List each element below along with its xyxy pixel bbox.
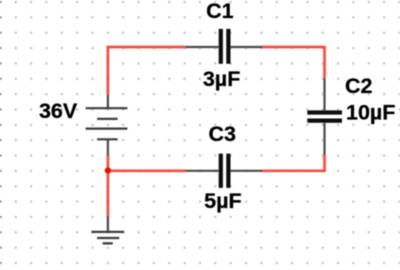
wire bottom-right: C2 bottom to C3 right [263, 155, 325, 171]
battery V1 top stub [107, 95, 109, 109]
svg-text:5µF: 5µF [204, 189, 241, 213]
svg-text:10µF: 10µF [346, 101, 395, 125]
wire top-left: node from battery + to C1 left [108, 47, 186, 95]
battery V1 plates [86, 108, 128, 139]
capacitor C3 leads [186, 170, 263, 172]
battery V1 bottom stub [107, 139, 109, 156]
svg-text:C3: C3 [208, 122, 236, 146]
junction node [105, 167, 111, 173]
capacitor C3 plates [221, 154, 229, 188]
svg-text:3µF: 3µF [203, 67, 240, 91]
capacitor C2 plates [307, 113, 342, 121]
ground [92, 232, 125, 244]
svg-text:C2: C2 [345, 74, 373, 98]
ground stub [107, 217, 109, 233]
capacitor C1 plates [221, 29, 229, 64]
wire battery - to junction to ground [107, 155, 110, 217]
svg-text:C1: C1 [206, 0, 234, 23]
svg-text:36V: 36V [39, 99, 78, 123]
capacitor C1 leads [186, 46, 263, 48]
wire top-right: C1 right to C2 top [263, 47, 325, 78]
wire bottom-left: C3 left to junction [108, 169, 186, 172]
capacitor C2 leads [323, 78, 325, 155]
